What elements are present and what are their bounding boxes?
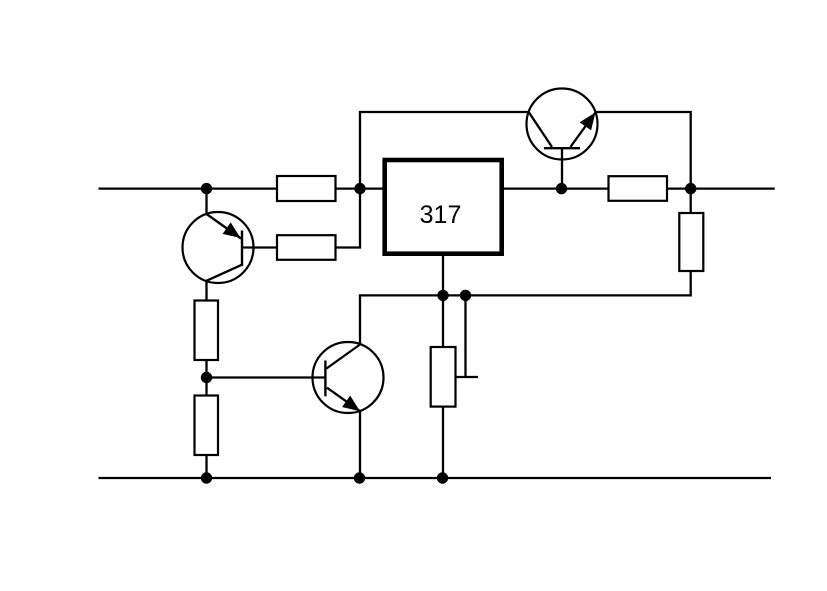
resistor R2	[277, 235, 336, 260]
wire Q2 emitter to node D	[596, 112, 691, 213]
wire U1 adj pin down to R7	[442, 256, 444, 347]
node ground junction J	[437, 472, 448, 483]
wire Q1 collector to R3	[205, 281, 207, 300]
resistor R5	[609, 176, 668, 201]
transistor Q1	[183, 212, 254, 283]
node G divider junction	[201, 372, 212, 383]
svg-text:317: 317	[420, 201, 462, 229]
wire bottom ground rail	[99, 477, 772, 479]
wire divider to Q3 base	[207, 376, 326, 378]
resistor R3	[195, 301, 219, 361]
node E U1 adj junction	[437, 290, 448, 301]
wire Q1 emitter	[205, 189, 207, 214]
wire Q3 emitter to ground rail	[359, 411, 361, 478]
wire U1 output to R5	[504, 187, 609, 189]
node ground junction I	[354, 472, 365, 483]
node C Q2 base junction	[556, 183, 567, 194]
wire R1 to U1 input	[336, 187, 383, 189]
regulator U1 317	[385, 160, 502, 254]
resistor R1	[277, 176, 336, 201]
wire R6 to adj rail to Q3 collector	[360, 271, 691, 345]
resistor R6	[679, 213, 703, 271]
node input junction A	[201, 183, 212, 194]
node F wiper junction	[460, 290, 471, 301]
wire R7 wiper tap	[456, 376, 479, 378]
resistor R4	[195, 396, 219, 456]
wire output rail right segment	[667, 187, 775, 189]
wire R3 to R4	[205, 360, 207, 396]
potentiometer R7 body	[431, 347, 456, 407]
wire R7 bottom to ground rail	[442, 407, 444, 478]
node D output junction	[685, 183, 696, 194]
wire Q2 base down to node C	[561, 148, 563, 188]
wire R2 up to Q2 collector	[336, 112, 529, 248]
wire top input rail left segment	[99, 187, 278, 189]
node B R2/Q2 collector junction	[354, 183, 365, 194]
node ground junction H	[201, 472, 212, 483]
transistor Q2	[527, 89, 598, 160]
wire R7 wiper vertical	[464, 295, 466, 377]
wire R4 to ground rail	[205, 455, 207, 478]
wire Q1 base to R2	[242, 246, 277, 248]
transistor Q3	[313, 342, 384, 413]
